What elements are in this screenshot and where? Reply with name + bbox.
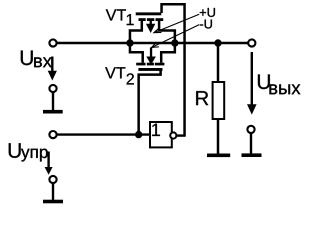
wire resistor branch upper	[217, 43, 220, 82]
resistor R body	[213, 82, 225, 119]
label +U	[200, 8, 215, 17]
transistor VT2 substrate lead with arrow (n-channel)	[150, 48, 152, 59]
transistor VT2 gate bar	[138, 68, 162, 71]
transistor VT1 channel segment right	[156, 18, 164, 21]
transistor VT2 channel segment right	[155, 63, 165, 66]
control wire Uupr row	[57, 133, 150, 135]
arrow Uupr (direction arrow)	[47, 152, 49, 169]
Uupr lower terminal circle	[49, 176, 56, 183]
arrow Uvx (direction arrow)	[51, 57, 53, 72]
transistor VT1 channel segment middle	[147, 18, 154, 21]
Uvyh lower terminal circle	[247, 126, 254, 133]
label -U	[200, 20, 212, 29]
node resistor tap (junction dot)	[214, 39, 221, 46]
transistor VT2 channel segment left	[136, 63, 145, 66]
arrow Uvyh (direction arrow)	[251, 52, 253, 106]
wire VT1 drain lead to right node	[159, 21, 175, 43]
wire input row (Uvx terminal to left node)	[57, 42, 130, 45]
node right (junction dot)	[171, 39, 178, 46]
common bar (Uupr port)	[43, 200, 63, 204]
wire VT2 gate to control line	[139, 70, 161, 134]
inverter U1 output bubble	[170, 132, 176, 138]
annotation arrow -U to VT2 substrate	[152, 25, 200, 48]
wire resistor branch lower	[217, 120, 220, 154]
transistor VT1 gate bar	[136, 12, 162, 15]
output terminal circle Uvyh	[248, 39, 255, 46]
common bar (resistor branch)	[207, 154, 230, 158]
common bar (Uvyh port)	[242, 153, 262, 157]
label Uupr	[9, 143, 21, 158]
Uvx lower terminal stub wire	[52, 92, 54, 110]
label Uvx	[21, 51, 33, 66]
common bar (Uvx port)	[43, 110, 63, 114]
transistor VT2 channel segment middle	[147, 63, 154, 66]
wire VT1 gate to inverter output (staircase + right rail)	[162, 4, 185, 135]
wire inverter output to rail	[176, 134, 185, 136]
input terminal circle Uvx	[49, 39, 56, 46]
transistor VT1 substrate lead with arrow (p-channel)	[150, 21, 152, 24]
label R	[196, 91, 208, 105]
node left (junction dot)	[126, 39, 133, 46]
Uvyh lower terminal stub wire	[250, 133, 252, 154]
label Uvyh	[258, 74, 270, 89]
label VT1	[106, 9, 126, 20]
wire node row between transistors	[130, 42, 175, 45]
control terminal circle Uupr	[49, 131, 56, 138]
wire VT1 source lead to left node	[130, 21, 142, 43]
wire VT2 drain lead to right node	[161, 43, 175, 63]
annotation arrow +U to VT1 substrate	[154, 14, 199, 33]
label VT2	[105, 67, 125, 78]
transistor VT1 channel segment left	[139, 18, 146, 21]
inverter U1 function label 1	[152, 124, 160, 136]
node control (junction dot)	[135, 131, 142, 138]
wire VT2 source lead to left node	[130, 43, 143, 63]
inverter U1 box	[150, 122, 172, 147]
wire output row (right node to output terminal)	[175, 42, 248, 45]
Uupr lower terminal stub wire	[52, 183, 54, 200]
Uvx lower terminal circle	[49, 85, 56, 92]
